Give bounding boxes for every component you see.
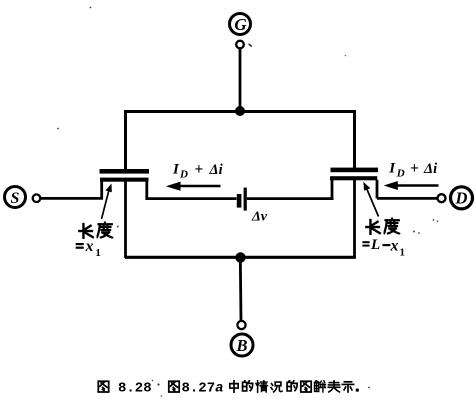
caption figure number 图 8.28 <box>98 381 151 397</box>
terminal S <box>5 187 26 208</box>
caption text 中的情况的图解表示. <box>230 381 359 393</box>
svg-text:I: I <box>388 161 396 177</box>
terminal D <box>451 187 473 209</box>
wire S lead <box>40 197 103 200</box>
svg-text:I: I <box>172 162 180 178</box>
label length value =L-x1 <box>362 237 405 259</box>
svg-text:8.28: 8.28 <box>118 381 152 397</box>
wire B lead <box>239 258 242 322</box>
wire right source drop <box>331 180 334 199</box>
svg-text:B: B <box>235 336 247 355</box>
wire right gate rail <box>353 110 356 168</box>
pointer arrow left channel <box>102 184 112 220</box>
pointer arrow right channel <box>363 182 378 217</box>
svg-text:+: + <box>195 161 204 178</box>
svg-text:Δi: Δi <box>423 161 437 177</box>
label length left 长度 <box>79 222 112 238</box>
battery plate long <box>244 188 247 211</box>
channel plate left MOSFET <box>100 178 149 182</box>
gate plate right MOSFET <box>331 168 379 173</box>
pin circle S <box>33 194 41 202</box>
wire left bulk <box>124 181 127 258</box>
label current left ID+Δi <box>172 161 223 181</box>
wire left gate rail <box>124 110 127 170</box>
svg-text:+: + <box>410 160 419 177</box>
svg-text:Δi: Δi <box>209 162 223 178</box>
svg-text:G: G <box>234 15 247 34</box>
wire top rail <box>125 110 357 113</box>
svg-text:D: D <box>455 189 468 208</box>
wire left source drop <box>100 181 103 198</box>
svg-text:8.27a: 8.27a <box>182 381 224 397</box>
terminal B <box>231 334 253 356</box>
svg-text:x: x <box>85 238 94 255</box>
svg-text:1: 1 <box>95 247 101 259</box>
wire bottom rail <box>125 256 356 259</box>
junction B node <box>235 252 245 262</box>
gate plate left MOSFET <box>100 169 150 174</box>
label length value =x1 <box>76 238 101 259</box>
scan specks <box>57 7 438 397</box>
wire battery right <box>247 197 334 200</box>
svg-text:1: 1 <box>400 247 406 259</box>
current arrow left <box>166 182 221 191</box>
current arrow right <box>384 181 439 190</box>
wire right drain drop <box>376 180 379 199</box>
caption reference 图 8.27a <box>169 381 224 397</box>
wire D lead <box>377 197 438 200</box>
wire G to top rail <box>239 49 242 112</box>
svg-text:x: x <box>390 237 399 254</box>
pin circle D <box>438 194 446 202</box>
terminal G <box>230 14 251 35</box>
label length right 长度 <box>366 218 399 234</box>
wire right bulk <box>353 180 356 258</box>
svg-text:Δv: Δv <box>251 210 268 225</box>
channel plate right MOSFET <box>330 176 377 180</box>
svg-text:D: D <box>396 168 405 180</box>
svg-text:S: S <box>11 190 20 207</box>
junction G node <box>235 106 245 116</box>
wire battery left <box>145 197 236 200</box>
label current right ID+Δi <box>388 160 437 180</box>
pin circle B <box>237 321 245 329</box>
svg-text:D: D <box>179 169 188 181</box>
pin circle G <box>236 41 244 49</box>
svg-text:L: L <box>370 237 380 253</box>
battery plate short <box>237 194 242 208</box>
wire left drain drop <box>145 181 148 198</box>
